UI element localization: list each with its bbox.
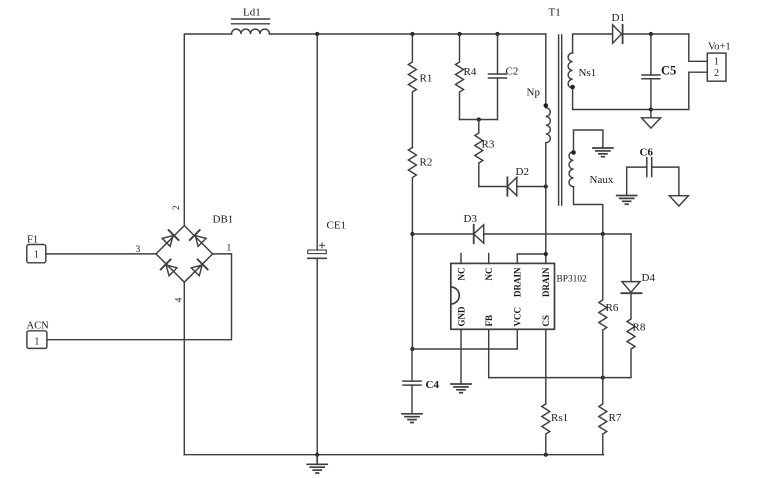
svg-text:R8: R8 bbox=[633, 322, 646, 334]
inductor Ld1 bbox=[232, 19, 270, 34]
ground GND pin bbox=[451, 384, 471, 393]
node junction Naux-D4 bbox=[601, 232, 605, 236]
connector Vo+1 bbox=[707, 53, 726, 81]
wire R4-C2 bottom join bbox=[460, 119, 498, 121]
ground Naux bbox=[593, 148, 613, 157]
node junction R3 top bbox=[477, 117, 481, 121]
wire bottom ground bus bbox=[184, 454, 603, 456]
svg-text:DRAIN: DRAIN bbox=[513, 267, 523, 297]
resistor R1 bbox=[408, 34, 416, 148]
pin VCC stub bbox=[412, 329, 517, 349]
connector ACN bbox=[27, 331, 47, 349]
svg-text:R3: R3 bbox=[482, 139, 495, 151]
svg-text:2: 2 bbox=[714, 68, 719, 79]
ground main bbox=[307, 455, 327, 473]
node junction CE1 top bbox=[315, 32, 319, 36]
diode DB1 bottom-right bbox=[190, 259, 207, 276]
diode D3 bbox=[412, 225, 631, 243]
svg-text:Vo+1: Vo+1 bbox=[708, 42, 731, 53]
pin NC 1 stub bbox=[460, 254, 462, 264]
svg-text:F1: F1 bbox=[27, 235, 38, 246]
svg-text:R2: R2 bbox=[420, 157, 433, 169]
resistor Rs1 bbox=[542, 404, 550, 455]
pin CS stub bbox=[545, 329, 547, 404]
resistor R6 bbox=[599, 234, 607, 378]
svg-text:4: 4 bbox=[175, 297, 185, 302]
capacitor C4 bbox=[403, 349, 421, 414]
svg-text:Rs1: Rs1 bbox=[551, 412, 568, 424]
svg-text:CS: CS bbox=[541, 315, 551, 327]
node junction VCC rail bbox=[410, 347, 414, 351]
node junction D2 drain bbox=[544, 184, 548, 188]
svg-text:DRAIN: DRAIN bbox=[541, 267, 551, 297]
node junction D3 rail bbox=[410, 232, 414, 236]
wire top bus from bridge to transformer primary bbox=[184, 34, 231, 226]
svg-text:Ld1: Ld1 bbox=[243, 7, 261, 19]
resistor R4 bbox=[456, 34, 464, 120]
connector F1 bbox=[27, 245, 46, 263]
resistor R7 bbox=[599, 378, 607, 455]
pin NC 2 stub bbox=[488, 254, 490, 264]
pin DRAIN 2 stub bbox=[545, 254, 547, 263]
node junction C2 top bbox=[495, 32, 499, 36]
diode DB1 top-left bbox=[161, 230, 178, 247]
resistor R3 bbox=[475, 120, 483, 187]
wire ACN to bridge pin1 bbox=[47, 254, 232, 340]
pin GND stub bbox=[460, 329, 462, 384]
svg-text:1: 1 bbox=[34, 250, 39, 261]
node junction C5 bottom bbox=[649, 107, 653, 111]
ground C6 left bbox=[617, 196, 637, 205]
svg-text:DB1: DB1 bbox=[213, 214, 234, 226]
node junction Rs1 bottom bbox=[544, 453, 548, 457]
svg-text:FB: FB bbox=[484, 315, 494, 327]
wire to Vo pin2 bbox=[651, 72, 707, 109]
wire F1 to bridge bbox=[46, 253, 156, 255]
svg-text:C4: C4 bbox=[426, 379, 440, 391]
node junction DRAIN bbox=[544, 252, 548, 256]
pin DRAIN stub and jog bbox=[517, 254, 546, 263]
svg-text:NC: NC bbox=[484, 268, 494, 281]
node junction R4 top bbox=[457, 32, 461, 36]
transformer aux winding Naux bbox=[569, 152, 603, 234]
capacitor CE1 bbox=[308, 34, 327, 455]
svg-text:Naux: Naux bbox=[590, 174, 614, 186]
Np phase dot bbox=[544, 103, 549, 108]
svg-text:1: 1 bbox=[227, 244, 232, 254]
diode D1 bbox=[613, 25, 689, 43]
svg-text:R1: R1 bbox=[420, 73, 433, 85]
diode DB1 top-right bbox=[190, 230, 207, 247]
svg-text:C2: C2 bbox=[506, 66, 519, 78]
svg-text:C6: C6 bbox=[640, 147, 654, 159]
svg-text:D2: D2 bbox=[516, 166, 529, 178]
svg-text:1: 1 bbox=[34, 336, 39, 347]
svg-text:CE1: CE1 bbox=[327, 220, 347, 232]
svg-text:R7: R7 bbox=[609, 412, 622, 424]
svg-text:R6: R6 bbox=[606, 302, 619, 314]
svg-text:BP3102: BP3102 bbox=[557, 275, 588, 285]
node junction R1 top bbox=[410, 32, 414, 36]
svg-text:2: 2 bbox=[172, 205, 182, 210]
ground C4 bbox=[402, 414, 422, 423]
diode DB1 bottom-left bbox=[161, 259, 178, 276]
ground triangle below C5 bbox=[642, 110, 661, 129]
node junction FB-R6-R7 bbox=[601, 376, 605, 380]
bridge rectifier DB1 bbox=[156, 226, 213, 283]
capacitor C6 bbox=[627, 158, 679, 196]
transformer secondary Ns1 bbox=[568, 34, 651, 110]
svg-text:VCC: VCC bbox=[513, 307, 523, 327]
node junction C5 top bbox=[649, 32, 653, 36]
wire FB to R6 bottom bbox=[489, 377, 603, 379]
svg-text:T1: T1 bbox=[549, 7, 561, 19]
svg-text:D1: D1 bbox=[612, 12, 625, 24]
ground triangle C6 right bbox=[669, 196, 688, 206]
svg-text:C5: C5 bbox=[661, 64, 676, 78]
svg-text:R4: R4 bbox=[464, 66, 477, 78]
Ns1 phase dot bbox=[570, 85, 575, 90]
transformer primary Np bbox=[546, 34, 551, 254]
diode D4 bbox=[621, 234, 641, 293]
svg-text:1: 1 bbox=[714, 57, 719, 68]
IC U1 BP3102 bbox=[412, 252, 554, 404]
svg-text:D3: D3 bbox=[464, 213, 478, 225]
wire R2 to VCC rail bbox=[411, 234, 413, 349]
wire to Vo pin1 bbox=[689, 34, 708, 61]
svg-text:NC: NC bbox=[456, 268, 466, 281]
svg-text:GND: GND bbox=[456, 306, 466, 327]
wire Naux top to ground bbox=[574, 130, 603, 152]
wire bridge pin4 to ground bus bbox=[183, 282, 185, 455]
svg-text:Np: Np bbox=[527, 87, 541, 99]
Naux phase dot bbox=[571, 150, 576, 155]
capacitor C5 bbox=[642, 34, 660, 110]
diode D2 bbox=[479, 177, 546, 195]
svg-text:Ns1: Ns1 bbox=[579, 67, 597, 79]
svg-text:ACN: ACN bbox=[27, 321, 50, 332]
resistor R2 bbox=[408, 148, 416, 235]
resistor R8 bbox=[603, 293, 635, 377]
svg-text:D4: D4 bbox=[642, 272, 656, 284]
capacitor C2 bbox=[489, 34, 507, 120]
transformer T1 core bbox=[559, 35, 562, 205]
node junction CE1 bottom bbox=[315, 453, 319, 457]
pin FB stub bbox=[488, 329, 490, 377]
